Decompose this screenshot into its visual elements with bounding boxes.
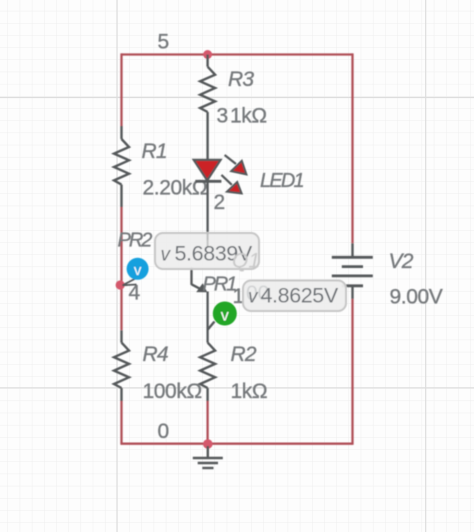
resistor R3 [200, 55, 215, 160]
svg-text:V2: V2 [389, 250, 414, 273]
probe PR1 pointer wire [192, 284, 202, 289]
svg-text:R3: R3 [228, 68, 254, 91]
wire top horizontal node 5 [122, 53, 353, 55]
svg-text:2: 2 [214, 191, 226, 214]
svg-text:PR1: PR1 [203, 274, 237, 296]
tooltip PR1 reading [243, 281, 346, 312]
probe PR1 circle [208, 302, 237, 330]
battery V2 [332, 243, 373, 299]
svg-text:v: v [248, 287, 259, 308]
svg-text:1kΩ: 1kΩ [231, 380, 268, 403]
node 0 junction dot [203, 439, 213, 449]
svg-text:100kΩ: 100kΩ [143, 380, 202, 403]
wire left vertical middle (node 4) [120, 207, 122, 330]
node 4 junction dot [116, 280, 125, 289]
LED1 cathode bar [195, 180, 221, 183]
wire left vertical upper (node 5 to R1) [120, 53, 122, 126]
resistor R2 [200, 343, 215, 401]
node 5 junction dot [203, 50, 212, 59]
svg-text:R4: R4 [143, 343, 168, 366]
svg-text:5: 5 [158, 31, 170, 54]
wire left vertical lower [120, 401, 122, 444]
svg-text:0: 0 [158, 420, 170, 443]
svg-text:v: v [134, 262, 142, 279]
probe PR2 arrow [123, 279, 137, 286]
LED1 emission arrow lower [221, 175, 241, 194]
wire probe jog under tooltip [190, 267, 192, 285]
svg-text:v: v [161, 245, 172, 266]
svg-text:Q1: Q1 [232, 250, 260, 273]
svg-text:v: v [221, 308, 229, 325]
wire middle lower to node 0 [206, 401, 208, 444]
svg-text:1kΩ: 1kΩ [230, 105, 267, 128]
svg-text:3: 3 [217, 105, 229, 128]
ground symbol [193, 446, 223, 468]
wire faint under tooltip [207, 234, 209, 248]
svg-text:9.00V: 9.00V [390, 286, 443, 309]
wire middle to R2 [206, 292, 208, 343]
wire right vertical lower [351, 299, 353, 445]
wire right vertical upper [351, 53, 353, 243]
svg-text:PR2: PR2 [118, 230, 153, 252]
LED LED1 triangle [194, 160, 221, 181]
svg-text:R1: R1 [142, 140, 167, 163]
probe PR2 circle [127, 258, 149, 280]
svg-text:R2: R2 [231, 343, 257, 366]
resistor R4 [114, 330, 129, 401]
tooltip PR2 reading [155, 233, 260, 273]
resistor R1 [114, 126, 129, 207]
svg-text:4.8625V: 4.8625V [261, 284, 339, 308]
svg-text:LED1: LED1 [260, 170, 304, 192]
LED1 emission arrow upper [225, 155, 247, 174]
wire middle below LED [206, 181, 208, 240]
wire bottom horizontal node 0 [120, 443, 352, 445]
probe PR1 arrowhead [196, 283, 207, 292]
